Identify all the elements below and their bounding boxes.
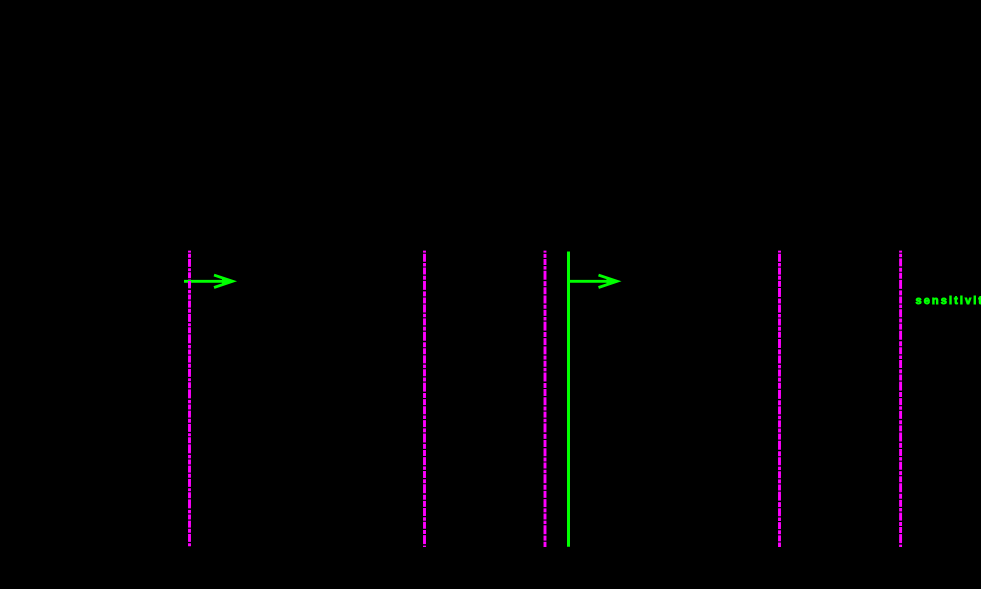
- magenta dashed line 1: [188, 251, 191, 547]
- magenta dashed line 2: [423, 251, 426, 547]
- magenta dashed line 3: [544, 251, 547, 547]
- magenta dash over arrow 1 crossing: [188, 281, 191, 286]
- green arrow 1 shaft: [184, 280, 228, 283]
- magenta dashed line 5: [899, 251, 902, 547]
- magenta dashed line 4: [778, 251, 781, 547]
- green solid line: [567, 252, 570, 547]
- green arrow 1 head: [214, 275, 233, 287]
- green arrow 2 head: [599, 275, 618, 287]
- svg-text:sensitivity: sensitivity: [916, 295, 981, 307]
- green arrow 2 shaft: [569, 280, 613, 283]
